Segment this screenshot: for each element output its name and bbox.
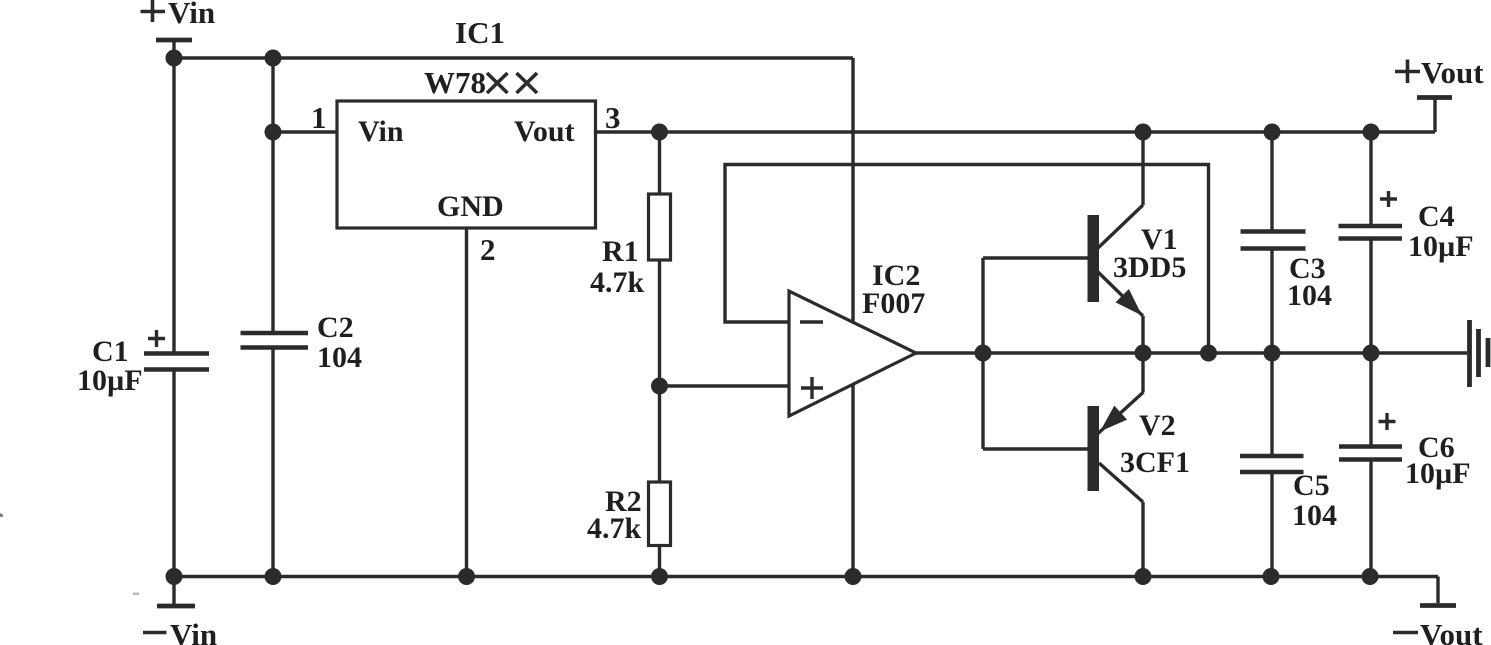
svg-text:Vout: Vout [1421,55,1484,90]
svg-text:10µF: 10µF [77,364,143,397]
terminal +Vin [141,0,216,58]
svg-text:1: 1 [311,100,327,135]
svg-text:W78: W78 [424,65,486,100]
svg-text:Vout: Vout [514,115,575,148]
capacitor C3 [1241,132,1333,353]
capacitor C1 [77,330,209,397]
svg-text:GND: GND [437,190,504,223]
svg-text:V2: V2 [1139,409,1176,442]
wire C2 branch [271,58,274,577]
node junction C4 top [1363,124,1380,141]
node junction bottom rail C5 [1263,568,1280,585]
wire feedback loop [725,165,1209,354]
node junction noninverting input [651,378,668,395]
node junction C6 top [1363,345,1380,362]
wire pin 2 GND [467,228,496,577]
wire pin 1 [273,100,337,135]
ground [1470,320,1489,387]
node junction bottom rail C1 [166,568,183,585]
node junction bottom rail R2 [651,568,668,585]
resistor R1 [590,132,671,299]
node junction top rail at C2 [265,50,282,67]
svg-text:104: 104 [1292,499,1337,532]
capacitor C2 [241,311,363,374]
svg-text:C4: C4 [1418,200,1455,233]
svg-text:R1: R1 [602,235,639,268]
node junction bottom rail C2 [265,568,282,585]
node junction top rail at C1 [166,50,183,67]
wire R1 to node [658,260,661,386]
node junction bottom rail V2 collector [1135,568,1152,585]
node junction emitters [1135,345,1152,362]
wire IC1 vertical feed [851,58,854,577]
op-amp IC2 [789,259,925,416]
node junction op-amp output [975,345,992,362]
wire C1 branch [172,58,175,577]
svg-text:3: 3 [605,100,621,135]
wire base bus [983,258,1088,449]
svg-text:Vin: Vin [358,115,404,148]
svg-text:104: 104 [1287,279,1332,312]
svg-text:104: 104 [317,341,362,374]
svg-text:2: 2 [480,232,496,267]
transistor V2 [1088,353,1191,577]
svg-text:F007: F007 [862,287,925,320]
IC IC1 W78xx regulator [337,65,596,228]
svg-text:4.7k: 4.7k [590,266,645,299]
svg-text:C5: C5 [1293,469,1330,502]
svg-text:Vin: Vin [170,617,217,645]
node junction bottom rail C6 [1362,568,1379,585]
svg-text:10µF: 10µF [1408,230,1474,263]
capacitor C5 [1240,353,1337,577]
terminal +Vout [1395,55,1484,132]
node junction C3 top [1264,124,1281,141]
scan artifact near -Vin [133,593,139,595]
capacitor C4 [1339,132,1474,353]
transistor V1 [1088,132,1187,353]
wire noninverting input [660,384,790,387]
svg-text:10µF: 10µF [1405,457,1471,490]
svg-text:Vout: Vout [1420,617,1483,645]
svg-text:C2: C2 [317,311,354,344]
node junction feedback tap [1200,345,1217,362]
wire Vout pin 3 line [596,100,1436,135]
svg-text:3CF1: 3CF1 [1120,446,1190,479]
svg-text:Vin: Vin [168,0,215,30]
node junction C5 top [1264,345,1281,362]
node junction bottom rail GND pin [458,568,475,585]
node junction R1 top [651,124,668,141]
svg-text:4.7k: 4.7k [587,512,642,545]
svg-text:IC1: IC1 [455,15,505,50]
capacitor C6 [1339,353,1471,577]
resistor R2 [587,386,671,577]
wire op-amp output rail [916,351,1467,354]
node junction bottom rail IC1 feed [845,568,862,585]
wire top rail [174,56,853,59]
wire bottom rail [174,575,1438,578]
terminal -Vout [1393,577,1483,645]
node junction V1 collector [1135,124,1152,141]
svg-text:3DD5: 3DD5 [1113,251,1186,284]
scan artifact left edge [0,513,3,517]
node junction pin1 branch [265,124,282,141]
terminal -Vin [143,577,217,645]
